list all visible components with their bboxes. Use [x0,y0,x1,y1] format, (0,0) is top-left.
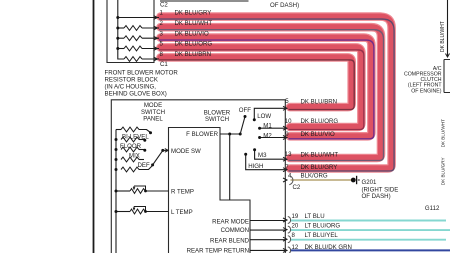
pin arrow row1 [154,16,158,20]
svg-text:LT BLU/ORG: LT BLU/ORG [305,223,341,230]
pin arrow MODE SW [165,149,168,153]
contact LOW and wire to pin 5 [254,108,285,120]
svg-text:C2: C2 [160,2,168,9]
resistor mode row3 [121,147,139,152]
title BLOWER SWITCH [204,109,231,123]
svg-text:DK BLU/VIO: DK BLU/VIO [301,131,335,138]
wire LT BLU/YEL (panel pin 8 toward G112) [290,239,446,241]
svg-text:OFF: OFF [239,107,251,114]
control head inner box [169,128,251,253]
node bus row3 [115,148,118,151]
pin arrow panel pin 4 [283,178,287,182]
resistor R-HI (row 8) [118,49,124,60]
ground G201 symbol [351,176,360,184]
node M2 contact [258,136,261,139]
svg-text:BI-LEVEL: BI-LEVEL [122,134,149,141]
svg-text:13: 13 [285,151,292,158]
contact M3 and wire to pin 13 [255,150,286,160]
title MODE SWITCH PANEL [141,102,165,123]
resistor mode row1 [116,129,121,131]
pin arrow row5 [154,47,158,51]
wire W1 DK BLU/GRY conductor line [159,19,394,171]
resistor R-M1 (row 2) [118,27,124,29]
wire F BLOWER output [220,133,240,135]
node tap FLOOR [143,139,146,142]
svg-text:MIX: MIX [129,152,140,159]
mode resistor network bus [115,130,117,253]
pin arrow panel pin 9 [283,136,287,140]
label A/C COMPRESSOR CLUTCH (LEFT FRONT OF ENGINE) [404,66,442,94]
potentiometer L TEMP [115,207,169,214]
svg-text:DK BLU/BRN: DK BLU/BRN [175,51,212,58]
connector arc pin 8 [288,236,291,243]
pin arrow into A/C clutch box [446,54,450,58]
node tap BI-LEVEL [149,131,152,134]
resistor mode row2 [121,137,139,142]
svg-text:F BLOWER: F BLOWER [186,131,218,138]
wire LT BLU (panel pin 19 toward G112) [290,220,446,222]
svg-text:DK BLU/GRY: DK BLU/GRY [441,157,446,185]
wire REAR MODE to pin 19 [250,220,285,222]
node bus-pin1 [116,16,119,19]
connector arc pin 19 [288,217,291,224]
caption FRONT BLOWER MOTOR RESISTOR BLOCK [105,70,179,98]
pin arrow panel pin 5 [283,106,287,110]
svg-text:7: 7 [285,164,289,171]
pin arrow row8 [154,57,158,61]
svg-text:LT BLU/YEL: LT BLU/YEL [305,232,339,239]
wire W3 DK BLU/VIO highlight band (pin 3 to panel pin 9) [161,38,372,137]
svg-text:DK BLU/VIO: DK BLU/VIO [175,30,209,37]
svg-text:COMMON: COMMON [221,227,249,234]
pin arrow panel pin 8 [283,237,287,241]
svg-text:5: 5 [285,98,289,105]
wire W5 DK BLU/BRN conductor line [159,60,354,110]
connector arc at pin 4 [289,176,293,185]
svg-text:LT BLU: LT BLU [305,213,325,220]
svg-text:DK BLU/BRN: DK BLU/BRN [301,98,338,105]
svg-text:REAR MODE: REAR MODE [212,219,249,226]
svg-text:OF ENGINE): OF ENGINE) [411,88,442,94]
svg-text:DK BLU/DK GRN: DK BLU/DK GRN [305,244,352,251]
A/C compressor clutch box (cut off at right) [444,60,450,93]
svg-text:(IN A/C HOUSING,: (IN A/C HOUSING, [105,84,157,91]
svg-text:G201: G201 [362,179,378,186]
wire W5 DK BLU/BRN highlight band (pin 8 to panel pin 5) [161,57,352,107]
svg-text:REAR BLEND: REAR BLEND [210,238,250,245]
wire W3 DK BLU/VIO conductor line [159,40,374,139]
svg-text:L TEMP: L TEMP [171,209,193,216]
svg-text:R TEMP: R TEMP [171,189,194,196]
wire W1 DK BLU/GRY highlight band (resistor block pin 1 to panel pin 7) [161,17,392,169]
svg-text:MODE SW: MODE SW [171,148,201,155]
front blower motor resistor block box [107,0,154,63]
label G201 (RIGHT SIDE OF DASH) [362,179,399,200]
wire COMMON to pin 20 [250,229,285,231]
pin arrow panel pin 19 [283,218,287,222]
node bus-pin3 [116,37,119,40]
svg-text:LOW: LOW [257,113,271,120]
node blower switch pivot [239,133,242,136]
wire pin1 row [118,17,159,19]
node bus row5 [115,168,118,171]
wire W2 DK BLU/WHT conductor line [159,30,384,161]
node bus-pin2 [116,27,119,30]
pin arrow panel pin 7 [283,168,287,172]
node mode switch pivot [161,149,164,152]
svg-text:19: 19 [292,213,299,220]
svg-text:20: 20 [292,223,299,230]
svg-text:DK BLU/WHT: DK BLU/WHT [440,21,446,52]
node OFF contact [244,115,247,118]
pin arrow panel pin 13 [283,157,287,161]
wire REAR TEMP RETURN to pin 12 [250,249,285,251]
pin arrow panel pin 20 [283,228,287,232]
wire W2 DK BLU/WHT highlight band (pin 2 to panel pin 13) [161,27,382,158]
svg-text:DK BLU/WHT: DK BLU/WHT [175,20,213,27]
mode switch lever (pivot to DEF) [153,150,163,165]
svg-text:DK BLU/WHT: DK BLU/WHT [301,151,339,158]
pin arrow row3 [154,36,158,40]
svg-text:M1: M1 [263,123,272,130]
svg-text:M2: M2 [263,133,272,140]
svg-text:DK BLU/ORG: DK BLU/ORG [175,41,213,48]
node M3 contact [253,148,256,151]
svg-text:SWITCH: SWITCH [205,116,229,123]
resistor block internal bus wire [117,0,119,49]
node bus row2 [115,138,118,141]
node HIGH contact [244,153,247,156]
node junction on F BLOWER wire [228,133,231,136]
node bus row4 [115,158,118,161]
contact HIGH and wire to pin 7 [246,154,286,169]
contact M1 wire to pin 10 [260,127,286,129]
potentiometer R TEMP [115,186,169,193]
svg-text:8: 8 [292,232,296,239]
svg-text:DK BLU/GRY: DK BLU/GRY [301,164,338,171]
svg-text:HIGH: HIGH [248,163,263,170]
wire DK BLU/WHT to A/C compressor clutch (top right, cut off) [447,0,449,57]
svg-text:C2: C2 [293,184,301,191]
wire REAR BLEND to pin 8 [250,239,285,241]
svg-text:DEF: DEF [138,162,150,169]
wire W4 DK BLU/ORG highlight band (pin 5 to panel pin 10) [161,47,362,127]
node LOW contact [253,118,256,121]
node tap MIX [143,149,146,152]
wire DK BLU/DK GRN (panel pin 12) [290,249,450,251]
svg-text:PANEL: PANEL [143,116,163,123]
svg-text:OF DASH): OF DASH) [362,193,391,200]
pin arrow panel pin 10 [283,126,287,130]
svg-text:RESISTOR BLOCK: RESISTOR BLOCK [105,77,158,84]
resistor mode row4 [121,157,139,162]
pin arrow row2 [154,26,158,30]
svg-text:OF DASH): OF DASH) [270,2,299,9]
node tap DEF contact [151,163,154,166]
svg-text:M3: M3 [258,152,267,159]
mode switch panel outer box [111,100,285,253]
svg-text:12: 12 [292,244,299,251]
pin arrow panel pin 12 [283,248,287,252]
resistor R-M3 (row 5) [118,48,124,50]
blower switch lever to OFF [240,117,245,135]
wire to G200 ground at top (cut off) [160,0,249,2]
resistor R-M2 (row 3) [118,37,124,39]
svg-text:DK BLU/GRY: DK BLU/GRY [175,10,212,17]
svg-text:BEHIND GLOVE BOX): BEHIND GLOVE BOX) [105,91,167,98]
wire LT BLU/ORG (panel pin 20 toward G112) [290,229,450,231]
svg-text:DK BLU/WHT: DK BLU/WHT [441,119,446,148]
svg-text:DK BLU/ORG: DK BLU/ORG [301,118,339,125]
svg-text:FLOOR: FLOOR [120,143,142,150]
node M1 contact [258,127,261,130]
wire F BLOWER feed down to rear section [229,134,231,200]
svg-text:FRONT BLOWER MOTOR: FRONT BLOWER MOTOR [105,70,179,77]
connector arc pin 20 [288,226,291,233]
wire W4 DK BLU/ORG conductor line [159,50,364,130]
page border section line (left) [93,0,95,253]
svg-text:G112: G112 [425,205,440,212]
contact M2 wire to pin 9 [260,137,286,139]
resistor mode row5 [121,167,139,172]
wire MODE SW to control head [163,149,169,151]
svg-text:10: 10 [285,118,292,125]
node bus-pin5 [116,47,119,50]
wire BLK/ORG (panel pin 4 to ground G201) [291,179,352,181]
svg-text:BLK/ORG: BLK/ORG [301,173,328,180]
svg-text:REAR TEMP RETURN: REAR TEMP RETURN [187,247,249,253]
svg-text:C1: C1 [160,61,168,68]
connector arc pin 12 [288,247,291,253]
svg-text:9: 9 [285,131,289,138]
